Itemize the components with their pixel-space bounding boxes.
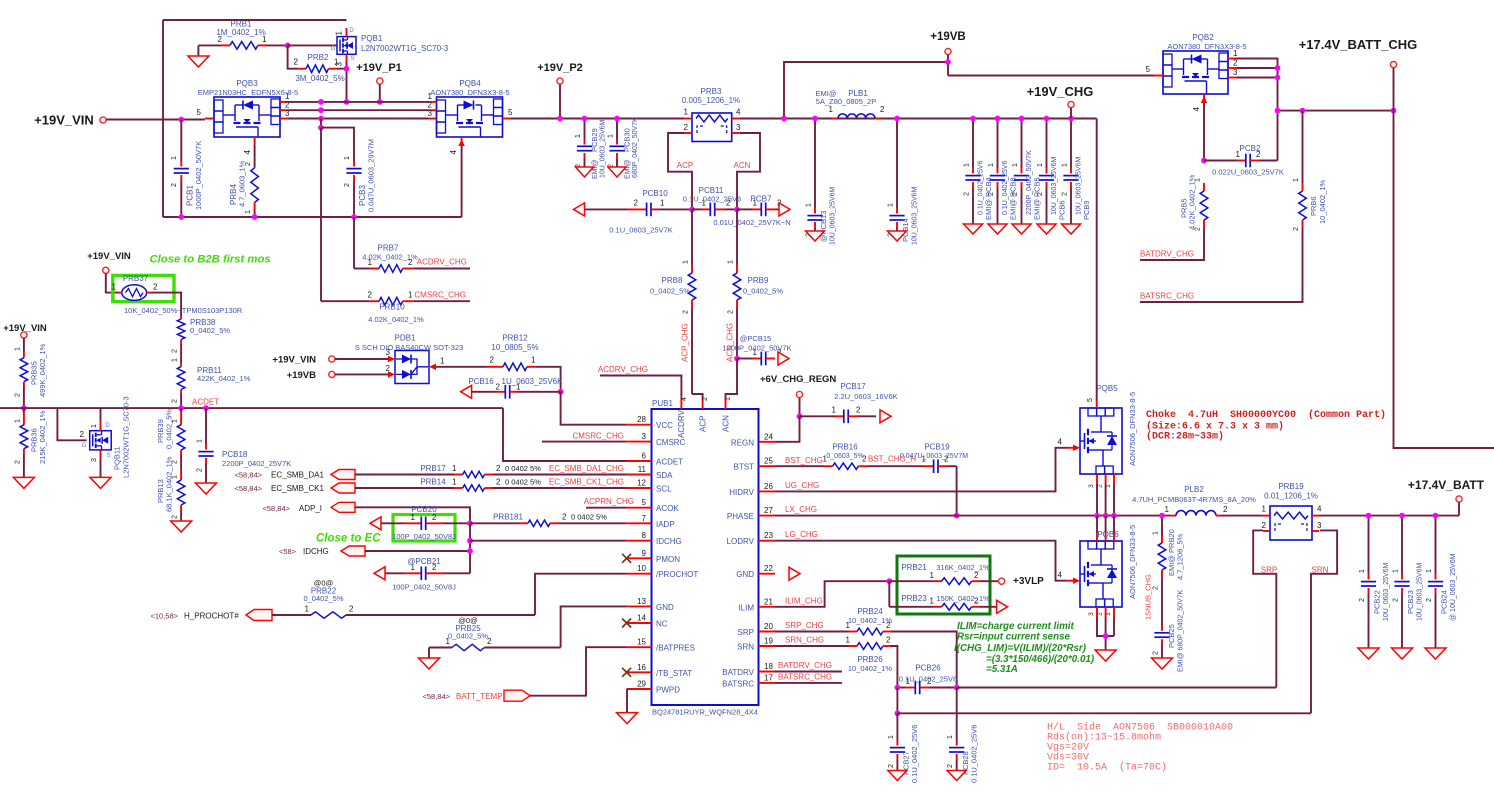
ground xyxy=(13,477,34,488)
wire PQB6 D3 xyxy=(1113,516,1115,533)
svg-text:BATSRC_CHG: BATSRC_CHG xyxy=(1140,292,1194,301)
svg-text:2: 2 xyxy=(432,513,437,522)
svg-text:5: 5 xyxy=(1146,65,1151,74)
svg-text:2: 2 xyxy=(1153,651,1160,655)
svg-text:19: 19 xyxy=(764,637,773,646)
svg-text:0.047U_0603_29V7M: 0.047U_0603_29V7M xyxy=(367,139,376,212)
PUB1 pin 14 NC xyxy=(622,614,668,629)
svg-text:2: 2 xyxy=(683,310,690,314)
svg-text:28: 28 xyxy=(637,415,646,424)
port arrow IDCHG xyxy=(341,546,365,556)
svg-text:PQB3: PQB3 xyxy=(236,79,258,88)
resistor PRB35 xyxy=(14,338,47,408)
transistor PQB1 xyxy=(331,28,449,66)
ground xyxy=(1358,648,1379,659)
svg-text:PRB181: PRB181 xyxy=(493,513,523,522)
wire to PRB37 xyxy=(106,273,118,292)
svg-text:PQB4: PQB4 xyxy=(459,79,481,88)
capacitor PCB15 xyxy=(722,334,791,365)
svg-text:1: 1 xyxy=(806,203,813,207)
junction xyxy=(1103,633,1109,639)
svg-text:ILIM_CHG: ILIM_CHG xyxy=(785,597,823,606)
svg-text:18: 18 xyxy=(764,662,773,671)
svg-text:16: 16 xyxy=(637,663,646,672)
svg-text:EC_SMB_DA1: EC_SMB_DA1 xyxy=(271,471,324,480)
junction xyxy=(894,116,900,122)
svg-text:1: 1 xyxy=(408,291,413,300)
resistor PRB12 xyxy=(487,334,539,371)
svg-text:PCB23: PCB23 xyxy=(1406,590,1415,614)
svg-text:Close to EC: Close to EC xyxy=(316,533,381,545)
ground xyxy=(617,713,638,724)
svg-text:0.1U_0402_25V6: 0.1U_0402_25V6 xyxy=(970,725,979,783)
svg-text:PRB12: PRB12 xyxy=(502,334,528,343)
svg-text:6: 6 xyxy=(642,452,647,461)
svg-text:2: 2 xyxy=(80,430,85,439)
PUB1 pin 24 REGN xyxy=(731,432,775,447)
junction xyxy=(1366,513,1372,519)
svg-text:EMI@ 680P_0402_50V7K: EMI@ 680P_0402_50V7K xyxy=(1178,589,1185,672)
svg-text:100P_0402_50V8J: 100P_0402_50V8J xyxy=(392,583,456,592)
power port xyxy=(1456,496,1462,502)
svg-text:BATDRV_CHG: BATDRV_CHG xyxy=(1140,250,1194,259)
svg-text:21: 21 xyxy=(764,597,773,606)
svg-text:3: 3 xyxy=(1088,484,1095,488)
svg-text:PRB8: PRB8 xyxy=(662,276,683,285)
svg-text:1: 1 xyxy=(440,357,445,366)
svg-text:27: 27 xyxy=(764,506,773,515)
svg-text:10U_0603_25V6M: 10U_0603_25V6M xyxy=(1383,562,1390,621)
svg-text:1: 1 xyxy=(947,735,954,739)
svg-text:1: 1 xyxy=(1062,163,1069,167)
svg-text:26: 26 xyxy=(764,482,773,491)
junction xyxy=(954,513,960,519)
arrow PRB23 end xyxy=(997,600,1008,613)
junction xyxy=(812,116,818,122)
ground xyxy=(806,231,825,241)
wire PQB2 pin4 down xyxy=(1203,103,1205,161)
svg-text:2: 2 xyxy=(702,397,709,401)
svg-text:4.7UH_PCMB063T-4R7MS_8A_20%: 4.7UH_PCMB063T-4R7MS_8A_20% xyxy=(1132,495,1256,504)
svg-text:ACP: ACP xyxy=(699,416,708,432)
wire +6V stub xyxy=(799,398,801,417)
svg-text:PRB9: PRB9 xyxy=(748,276,769,285)
ground xyxy=(188,56,209,67)
svg-text:1: 1 xyxy=(888,735,895,739)
resistor PRB20 (snubber) xyxy=(1153,516,1185,626)
svg-text:2200P_0402_25V7K: 2200P_0402_25V7K xyxy=(222,459,291,468)
svg-text:PQB2: PQB2 xyxy=(1192,33,1214,42)
resistor PRB36 xyxy=(14,408,47,477)
svg-text:7: 7 xyxy=(642,514,647,523)
svg-text:ACDRV: ACDRV xyxy=(677,409,686,438)
wire BST to phase xyxy=(956,466,958,515)
transistor PQB3 xyxy=(197,79,299,154)
svg-text:2: 2 xyxy=(344,183,351,187)
svg-text:2: 2 xyxy=(947,764,954,768)
svg-text:Rsr=input current sense: Rsr=input current sense xyxy=(957,632,1071,643)
capacitor PCB22 xyxy=(1359,516,1390,648)
svg-text:IDCHG: IDCHG xyxy=(303,547,329,556)
ground xyxy=(419,658,440,669)
junction xyxy=(1433,513,1439,519)
svg-text:2: 2 xyxy=(1153,586,1160,590)
PUB1 pin 21 ILIM xyxy=(738,597,775,612)
power port xyxy=(100,117,106,123)
svg-text:1: 1 xyxy=(91,424,98,428)
svg-text:24: 24 xyxy=(764,432,773,441)
svg-text:1: 1 xyxy=(930,571,935,580)
svg-text:ACP: ACP xyxy=(677,161,693,170)
svg-text:2: 2 xyxy=(368,291,373,300)
wire to PQB1 gate xyxy=(288,44,337,46)
svg-text:ACN: ACN xyxy=(734,161,751,170)
svg-text:1: 1 xyxy=(728,260,735,264)
ground xyxy=(576,167,594,177)
junction xyxy=(1275,65,1281,71)
arrow PCB21 end xyxy=(374,567,385,580)
svg-text:PCB6: PCB6 xyxy=(1058,200,1067,220)
svg-text:2: 2 xyxy=(1262,521,1267,530)
svg-text:PCB30: PCB30 xyxy=(622,128,631,152)
svg-text:499K_0402_1%: 499K_0402_1% xyxy=(38,343,47,397)
power port xyxy=(21,332,27,338)
junction xyxy=(1391,108,1397,114)
PUB1 pin 16 /TB_STAT xyxy=(622,663,692,678)
svg-text:H_PROCHOT#: H_PROCHOT# xyxy=(184,612,239,621)
ground xyxy=(1152,658,1173,669)
svg-text:2: 2 xyxy=(171,183,178,187)
svg-text:25: 25 xyxy=(764,457,773,466)
svg-text:PRB6: PRB6 xyxy=(1309,196,1318,216)
svg-text:ACOK: ACOK xyxy=(656,504,679,513)
svg-text:/TB_STAT: /TB_STAT xyxy=(656,669,692,678)
svg-text:<58,84>: <58,84> xyxy=(262,504,290,513)
svg-text:@PCB21: @PCB21 xyxy=(407,557,441,566)
svg-text:GND: GND xyxy=(736,570,754,579)
PUB1 pin 11 SDA xyxy=(627,465,674,480)
svg-text:PRB21: PRB21 xyxy=(901,563,927,572)
resistor PRB5 xyxy=(1180,174,1208,231)
PUB1 pin 23 LODRV xyxy=(727,531,775,546)
capacitor PCB13 xyxy=(806,119,837,246)
svg-text:13: 13 xyxy=(637,597,646,606)
svg-text:1: 1 xyxy=(1153,531,1160,535)
wire row pin2 xyxy=(288,109,428,111)
wire down to PRB10 (crosses bus) xyxy=(320,128,322,302)
svg-text:3: 3 xyxy=(335,61,344,66)
svg-text:1: 1 xyxy=(1393,569,1400,573)
wire PQB6 S3 down xyxy=(1113,617,1115,636)
resistor PRB24 xyxy=(775,607,892,635)
svg-text:2: 2 xyxy=(1233,59,1238,68)
junction xyxy=(797,413,803,419)
wire +19VB riser xyxy=(784,62,948,119)
svg-text:SCL: SCL xyxy=(656,485,672,494)
wire SRN to PCB26 xyxy=(891,646,897,688)
svg-text:AON7380_DFN3X3-8-5: AON7380_DFN3X3-8-5 xyxy=(1167,42,1246,51)
svg-text:1: 1 xyxy=(245,210,252,214)
svg-text:CMSRC_CHG: CMSRC_CHG xyxy=(572,432,624,441)
svg-text:0.047U_0603_25V7M: 0.047U_0603_25V7M xyxy=(900,453,968,460)
svg-text:1: 1 xyxy=(660,199,665,208)
svg-text:4: 4 xyxy=(681,397,688,401)
junction xyxy=(467,548,473,554)
svg-text:2: 2 xyxy=(153,283,158,292)
junction xyxy=(1103,513,1109,519)
svg-text:1: 1 xyxy=(575,134,582,138)
svg-text:1: 1 xyxy=(1293,178,1300,182)
svg-text:2: 2 xyxy=(496,464,501,473)
svg-text:1: 1 xyxy=(832,406,837,415)
svg-text:BATDRV: BATDRV xyxy=(722,668,754,677)
capacitor PCB7 xyxy=(713,195,790,228)
capacitor PCB4 xyxy=(964,119,994,225)
svg-text:+19V_VIN: +19V_VIN xyxy=(272,355,316,366)
junction xyxy=(252,214,258,220)
svg-text:10_0402_1%: 10_0402_1% xyxy=(1318,179,1327,224)
svg-text:<10,58>: <10,58> xyxy=(150,612,178,621)
power port xyxy=(796,391,802,397)
svg-text:SRN_CHG: SRN_CHG xyxy=(785,636,824,645)
svg-text:BATT_TEMP: BATT_TEMP xyxy=(456,692,503,701)
svg-text:2: 2 xyxy=(197,468,204,472)
sense resistor PRB19 xyxy=(1262,482,1322,540)
svg-text:215K_0402_1%: 215K_0402_1% xyxy=(38,410,47,464)
PUB1 pin 9 PMON xyxy=(622,549,680,564)
power port xyxy=(329,371,335,377)
transistor PQB2 xyxy=(1146,33,1247,111)
capacitor PCB11 xyxy=(683,186,741,216)
wire to ground xyxy=(197,45,199,56)
resistor PRB13 xyxy=(156,456,185,521)
svg-text:2: 2 xyxy=(487,637,492,646)
svg-text:0 0402 5%: 0 0402 5% xyxy=(505,478,541,487)
svg-text:LG_CHG: LG_CHG xyxy=(785,530,818,539)
svg-text:1: 1 xyxy=(846,636,851,645)
svg-text:4.7_1206_5%: 4.7_1206_5% xyxy=(1176,533,1185,580)
svg-text:PCB18: PCB18 xyxy=(222,450,248,459)
capacitor PCB17 xyxy=(800,382,898,423)
svg-text:EC_SMB_CK1_CHG: EC_SMB_CK1_CHG xyxy=(549,478,624,487)
svg-text:1: 1 xyxy=(608,134,615,138)
svg-text:@PCB15: @PCB15 xyxy=(740,334,771,343)
svg-text:PRB17: PRB17 xyxy=(420,464,446,473)
wire BATSRC_CHG xyxy=(1140,228,1303,302)
svg-text:1: 1 xyxy=(1105,612,1112,616)
svg-text:4.7_0603_1%: 4.7_0603_1% xyxy=(238,160,247,207)
svg-text:PCB7: PCB7 xyxy=(751,195,772,204)
svg-text:BATSRC_CHG: BATSRC_CHG xyxy=(778,673,832,682)
wire to PCB3 xyxy=(321,128,354,161)
svg-text:PQB1: PQB1 xyxy=(361,34,383,43)
svg-text:1U_0603_25V6K: 1U_0603_25V6K xyxy=(502,377,564,386)
svg-text:ACDRV_CHG: ACDRV_CHG xyxy=(598,365,648,374)
wire SRP hook xyxy=(1253,530,1276,687)
svg-text:PCB19: PCB19 xyxy=(924,443,950,452)
svg-text:AON7506_DFN33-8-5: AON7506_DFN33-8-5 xyxy=(1128,392,1137,466)
PUB1 pin 13 GND xyxy=(627,597,674,612)
wire IDCHG to pin8 xyxy=(470,540,627,542)
resistor PRB4 xyxy=(229,145,258,217)
wire PRB11 to ACDET xyxy=(180,394,182,408)
svg-text:CMSRC_CHG: CMSRC_CHG xyxy=(414,291,466,300)
IC PUB1 BQ24781RUYR_WQFN28_4X4 xyxy=(652,399,759,717)
svg-text:PCB2: PCB2 xyxy=(1240,144,1261,153)
svg-text:0 0402 5%: 0 0402 5% xyxy=(505,464,541,473)
svg-text:1: 1 xyxy=(846,621,851,630)
svg-text:2: 2 xyxy=(408,258,413,267)
svg-text:ACP_CHG: ACP_CHG xyxy=(681,323,690,362)
junction xyxy=(1068,116,1074,122)
ground xyxy=(1062,224,1081,234)
svg-text:BST_CHG: BST_CHG xyxy=(785,456,823,465)
svg-text:PQB11: PQB11 xyxy=(113,446,122,470)
svg-text:EC_SMB_DA1_CHG: EC_SMB_DA1_CHG xyxy=(549,464,624,473)
wire REGN xyxy=(775,416,800,442)
power port xyxy=(1068,101,1074,107)
svg-text:EMI@ PCB4: EMI@ PCB4 xyxy=(984,177,993,220)
svg-text:ILIM=charge current limit: ILIM=charge current limit xyxy=(957,621,1075,632)
svg-text:316K_0402_1%: 316K_0402_1% xyxy=(936,563,990,572)
svg-text:SRN: SRN xyxy=(737,643,754,652)
svg-text:0_0402_5%: 0_0402_5% xyxy=(650,287,690,296)
resistor PRB39 xyxy=(156,408,185,470)
ground xyxy=(947,771,966,781)
PUB1 pin 26 HIDRV xyxy=(729,482,775,497)
svg-text:1: 1 xyxy=(14,347,21,351)
capacitor PCB24 xyxy=(1426,516,1457,648)
green box PRB21/PRB23 xyxy=(897,556,990,614)
resistor PRB23 xyxy=(889,594,996,610)
svg-text:5: 5 xyxy=(197,108,202,117)
svg-text:2: 2 xyxy=(294,58,299,67)
wire ILIM branch xyxy=(888,581,890,607)
wire PLB2 to PRB19 xyxy=(1222,515,1262,517)
svg-text:@ 10U_0603_25V6M: @ 10U_0603_25V6M xyxy=(1450,553,1457,621)
capacitor PCB26 xyxy=(897,664,957,695)
power port xyxy=(1390,62,1396,68)
wire ACDET to pin6 xyxy=(503,408,627,461)
junction xyxy=(954,685,960,691)
svg-text:4: 4 xyxy=(449,149,458,154)
svg-text:PRB19: PRB19 xyxy=(1278,482,1304,491)
PUB1 pin 29 PWPD xyxy=(627,680,681,695)
svg-text:PCB25: PCB25 xyxy=(1167,624,1176,648)
wire +17.4V_BATT_CHG off page xyxy=(1394,68,1494,448)
svg-text:<58,84>: <58,84> xyxy=(234,471,262,480)
svg-text:1: 1 xyxy=(1426,569,1433,573)
PUB1 pin 5 ACOK xyxy=(627,498,680,513)
svg-text:REGN: REGN xyxy=(731,438,754,447)
wire ADP node vertical xyxy=(469,523,471,573)
svg-text:ACN_CHG: ACN_CHG xyxy=(726,323,735,362)
thermistor PRB37 xyxy=(112,274,243,315)
svg-text:1: 1 xyxy=(305,605,310,614)
junction xyxy=(781,116,787,122)
wire PQB5 S1 xyxy=(1096,484,1098,516)
capacitor PCB30 (EMI) xyxy=(608,117,640,179)
arrow PCB15 end xyxy=(778,352,789,365)
junction xyxy=(734,356,740,362)
svg-text:/BATPRES: /BATPRES xyxy=(656,644,695,653)
junction xyxy=(557,116,563,122)
svg-text:2: 2 xyxy=(880,105,885,114)
svg-text:1000P_0402_50V7K: 1000P_0402_50V7K xyxy=(194,141,203,210)
svg-text:S: S xyxy=(106,453,110,459)
svg-text:3: 3 xyxy=(91,458,98,462)
svg-text:VCC: VCC xyxy=(656,421,673,430)
svg-text:SRP: SRP xyxy=(738,628,754,637)
svg-text:IDCHG: IDCHG xyxy=(656,537,682,546)
PUB1 pin 18 BATDRV xyxy=(722,662,775,677)
resistor PRB11 xyxy=(172,358,251,403)
wire +19VB to PQB2 pin5 xyxy=(948,75,1154,77)
svg-text:SDA: SDA xyxy=(656,471,673,480)
svg-text:PRB14: PRB14 xyxy=(420,478,446,487)
svg-text:PCB29: PCB29 xyxy=(590,128,599,152)
svg-text:PQB6: PQB6 xyxy=(1097,530,1119,539)
svg-text:PLB2: PLB2 xyxy=(1184,485,1204,494)
svg-text:BQ24781RUYR_WQFN28_4X4: BQ24781RUYR_WQFN28_4X4 xyxy=(652,708,758,717)
svg-text:D: D xyxy=(105,423,110,429)
svg-text:1: 1 xyxy=(888,203,895,207)
inductor PLB1 xyxy=(816,89,885,119)
capacitor PCB8 xyxy=(988,119,1018,225)
svg-text:10U_0603_25V6M: 10U_0603_25V6M xyxy=(912,186,919,245)
power port xyxy=(557,78,563,84)
svg-text:17: 17 xyxy=(764,673,773,682)
arrow PCB20 end xyxy=(370,517,381,530)
resistor PRB6 xyxy=(1293,111,1327,231)
ground xyxy=(988,224,1007,234)
svg-text:ACDET: ACDET xyxy=(192,398,219,407)
svg-text:BATDRV_CHG: BATDRV_CHG xyxy=(778,661,832,670)
junction xyxy=(178,405,184,411)
svg-text:L2N7002WT1G_SC70-3: L2N7002WT1G_SC70-3 xyxy=(122,396,131,478)
svg-text:EMI@ PCB5: EMI@ PCB5 xyxy=(1033,177,1042,220)
wire ACN xyxy=(737,133,760,209)
svg-text:/PROCHOT: /PROCHOT xyxy=(656,570,698,579)
svg-text:422K_0402_1%: 422K_0402_1% xyxy=(197,374,251,383)
svg-text:PRB26: PRB26 xyxy=(857,655,883,664)
svg-text:PRB2: PRB2 xyxy=(308,53,329,62)
PUB1 pin 10 /PROCHOT xyxy=(627,564,699,579)
junction xyxy=(1399,513,1405,519)
wire H_PROCHOT to pin10 xyxy=(535,574,627,615)
svg-text:PCB17: PCB17 xyxy=(840,382,866,391)
svg-text:1M_0402_1%: 1M_0402_1% xyxy=(216,28,265,37)
wire PQB2 pin2 xyxy=(1237,67,1278,69)
svg-text:1: 1 xyxy=(411,513,416,522)
svg-text:12: 12 xyxy=(637,479,646,488)
svg-text:2: 2 xyxy=(1012,192,1019,196)
wire PQB6 D2 xyxy=(1105,516,1107,533)
svg-text:2: 2 xyxy=(172,399,179,403)
svg-text:2: 2 xyxy=(1062,192,1069,196)
svg-text:10U_0603_25V6M: 10U_0603_25V6M xyxy=(1417,562,1424,621)
svg-text:(DCR:28m~33m): (DCR:28m~33m) xyxy=(1146,431,1224,443)
resistor PRB181 xyxy=(470,513,627,527)
svg-text:+19VB: +19VB xyxy=(930,31,965,43)
svg-text:9: 9 xyxy=(642,549,647,558)
svg-text:2: 2 xyxy=(1097,612,1104,616)
svg-text:1: 1 xyxy=(829,105,834,114)
svg-text:1: 1 xyxy=(14,419,21,423)
power port xyxy=(945,48,951,54)
svg-text:1: 1 xyxy=(531,356,536,365)
ground xyxy=(964,224,983,234)
